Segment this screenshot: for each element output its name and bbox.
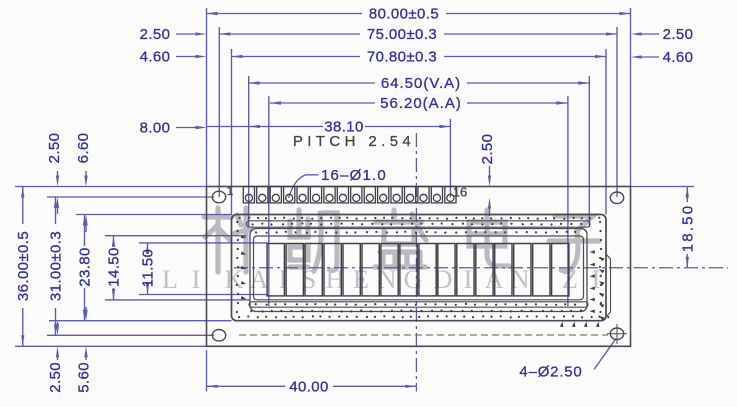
svg-text:I: I	[464, 265, 473, 294]
svg-text:80.00±0.5: 80.00±0.5	[369, 6, 439, 23]
svg-text:6.60: 6.60	[75, 133, 92, 164]
svg-text:18.50: 18.50	[679, 204, 696, 253]
svg-text:2.50: 2.50	[479, 134, 496, 165]
svg-text:4.60: 4.60	[140, 49, 171, 66]
svg-text:8.00: 8.00	[140, 120, 171, 137]
svg-text:1: 1	[227, 184, 234, 198]
svg-text:2.50: 2.50	[140, 26, 171, 43]
svg-text:K: K	[225, 265, 244, 294]
svg-text:70.80±0.3: 70.80±0.3	[367, 49, 437, 66]
svg-text:2.50: 2.50	[663, 26, 694, 43]
svg-text:14.50: 14.50	[106, 247, 123, 287]
svg-text:31.00±0.3: 31.00±0.3	[48, 231, 65, 301]
svg-text:2.50: 2.50	[47, 362, 64, 393]
svg-text:I: I	[592, 265, 601, 294]
svg-text:16–Ø1.0: 16–Ø1.0	[321, 167, 387, 184]
svg-text:11.50: 11.50	[140, 249, 157, 287]
svg-text:56.20(A.A): 56.20(A.A)	[380, 95, 462, 112]
svg-text:5.60: 5.60	[76, 362, 93, 393]
svg-text:23.80: 23.80	[77, 247, 94, 287]
svg-text:PITCH 2.54: PITCH 2.54	[293, 133, 415, 150]
svg-text:40.00: 40.00	[289, 378, 329, 395]
svg-text:36.00±0.5: 36.00±0.5	[15, 231, 32, 301]
svg-text:Z: Z	[562, 265, 578, 294]
svg-text:4–Ø2.50: 4–Ø2.50	[519, 364, 582, 381]
svg-text:16: 16	[453, 185, 467, 200]
svg-text:I: I	[192, 265, 201, 294]
svg-text:L: L	[162, 265, 178, 294]
svg-text:75.00±0.3: 75.00±0.3	[367, 26, 437, 43]
svg-text:2.50: 2.50	[46, 133, 63, 164]
svg-text:A: A	[250, 265, 269, 294]
svg-text:4.60: 4.60	[663, 49, 694, 66]
svg-text:64.50(V.A): 64.50(V.A)	[381, 75, 461, 92]
